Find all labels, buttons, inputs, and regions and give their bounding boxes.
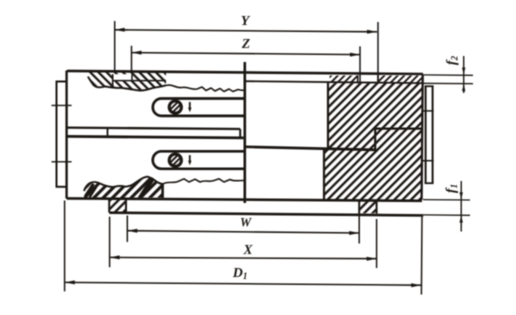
svg-text:f1: f1 (444, 184, 459, 193)
svg-text:Y: Y (241, 14, 251, 29)
svg-text:f2: f2 (445, 55, 460, 65)
svg-text:W: W (240, 216, 252, 230)
svg-text:Z: Z (241, 36, 250, 51)
svg-text:D1: D1 (232, 266, 248, 281)
svg-text:X: X (242, 242, 253, 257)
